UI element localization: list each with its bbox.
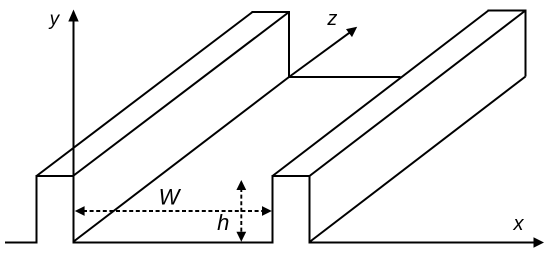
right ridge front face — [273, 176, 311, 244]
right ridge bottom-right edge — [310, 77, 526, 243]
left ridge top-left edge — [37, 12, 253, 176]
svg-text:W: W — [159, 185, 182, 210]
left ridge back right edge — [288, 11, 290, 77]
right ridge top-right edge — [310, 11, 526, 177]
ground front edge left segment — [5, 242, 37, 244]
right ridge back right edge — [525, 10, 527, 77]
svg-text:h: h — [217, 210, 229, 235]
z-axis — [289, 27, 357, 77]
left ridge bottom-right edge — [73, 77, 289, 242]
right ridge top-left edge — [273, 11, 489, 177]
left ridge top-right edge — [73, 12, 289, 176]
W dimension arrow (dashed, double-headed) — [75, 206, 272, 216]
right ridge front right edge — [309, 176, 311, 244]
left ridge back top edge — [252, 11, 291, 13]
right ridge back top edge — [488, 10, 527, 12]
svg-text:z: z — [326, 8, 337, 30]
h dimension arrow (dashed, double-headed) — [236, 180, 246, 242]
svg-text:x: x — [513, 213, 525, 235]
groove floor front edge — [73, 242, 273, 244]
x-axis — [310, 237, 545, 247]
ground back edge — [289, 76, 401, 78]
left ridge front face — [37, 176, 75, 244]
y-axis — [68, 10, 78, 244]
svg-text:y: y — [48, 9, 61, 30]
